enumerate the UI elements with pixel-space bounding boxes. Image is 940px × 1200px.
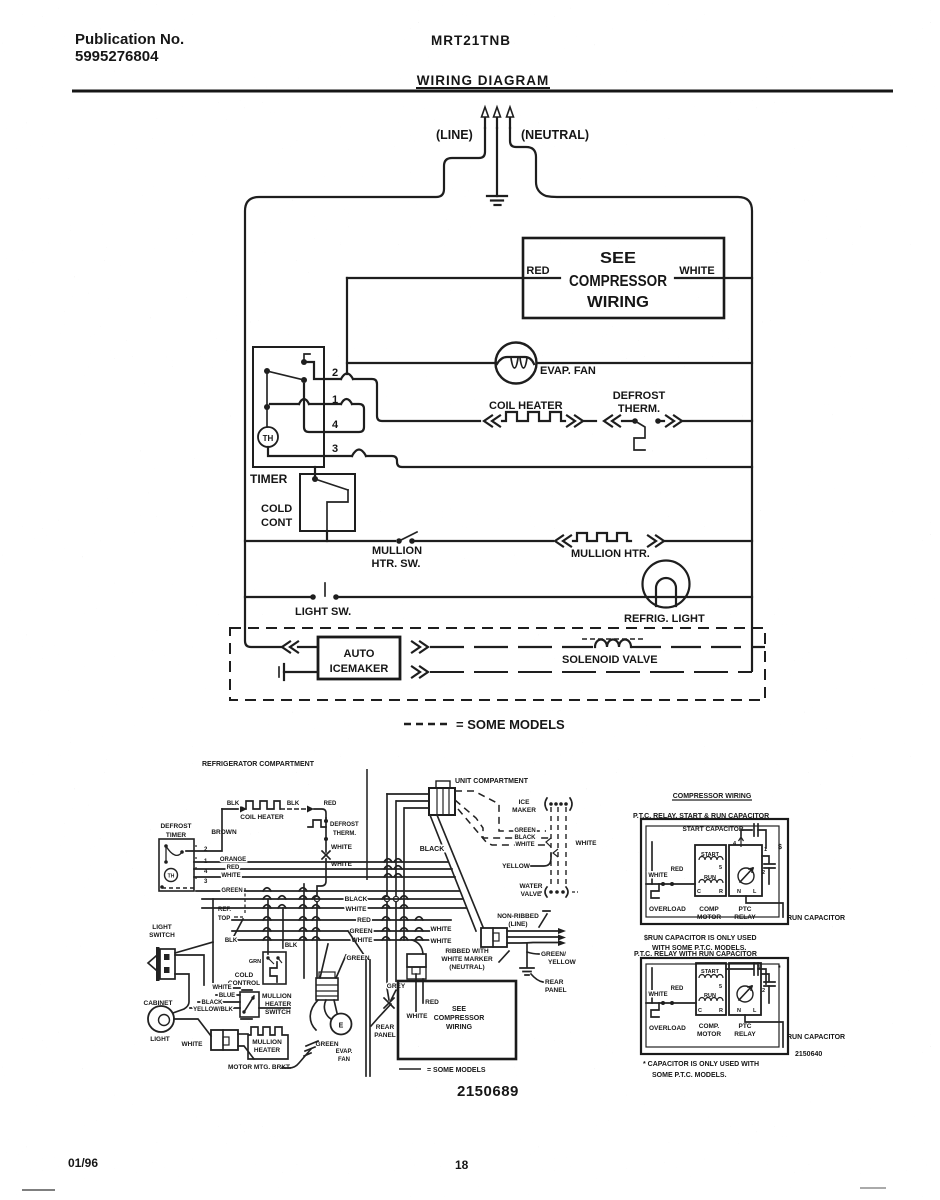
white wire down to terminal bbox=[317, 859, 326, 896]
cold control box bbox=[300, 474, 355, 531]
defrost therm contacts bbox=[622, 418, 664, 450]
svg-text:ORANGE: ORANGE bbox=[220, 857, 246, 863]
svg-text:TIMER: TIMER bbox=[166, 832, 187, 839]
mullion heater plug bbox=[211, 1030, 238, 1050]
bundle row red bbox=[232, 919, 451, 921]
svg-text:WHITE: WHITE bbox=[212, 985, 231, 991]
svg-text:RUN CAPACITOR: RUN CAPACITOR bbox=[787, 915, 845, 922]
svg-text:WIRING: WIRING bbox=[446, 1024, 473, 1031]
ptc relay box2 bbox=[729, 963, 761, 1015]
svg-text:PTC: PTC bbox=[739, 906, 752, 913]
rear panel splice converging wires bbox=[371, 988, 396, 1026]
rear panel double verticals bbox=[366, 960, 370, 1076]
svg-text:N: N bbox=[737, 1008, 741, 1014]
comp motor box2 bbox=[696, 963, 726, 1015]
fan wires curved bbox=[310, 1000, 337, 1030]
svg-text:WIRING DIAGRAM: WIRING DIAGRAM bbox=[417, 73, 550, 88]
bulkhead connector wires left bbox=[387, 794, 429, 808]
defrost timer blade bbox=[166, 846, 182, 862]
label LIGHT SWITCH bbox=[149, 924, 175, 939]
label MULLION HTR. SW. bbox=[372, 545, 423, 570]
label COMP MOTOR box1 bbox=[697, 906, 721, 921]
mullion heater arrow right bbox=[648, 536, 664, 547]
label RIBBED WITH WHITE MARKER (NEUTRAL) bbox=[441, 948, 493, 971]
svg-text:4: 4 bbox=[332, 419, 339, 431]
svg-text:WHITE: WHITE bbox=[648, 873, 667, 879]
wire solenoid to dashed box edge bbox=[631, 646, 765, 648]
svg-text:TIMER: TIMER bbox=[250, 472, 288, 486]
bundle hops white2 row bbox=[263, 937, 423, 940]
overload step box1 bbox=[651, 884, 659, 898]
wire icemaker bottom row bbox=[430, 670, 752, 672]
svg-text:WHITE: WHITE bbox=[331, 861, 353, 868]
cold control to mullion row bbox=[326, 531, 328, 541]
some models dashed box bbox=[230, 628, 765, 700]
ground wire stem bbox=[496, 128, 498, 196]
svg-text:REF.: REF. bbox=[218, 907, 231, 913]
svg-text:MULLION: MULLION bbox=[262, 993, 292, 1000]
terminal circle white wire bbox=[314, 896, 319, 901]
svg-text:WHITE: WHITE bbox=[576, 840, 598, 847]
svg-text:5995276804: 5995276804 bbox=[75, 48, 159, 65]
plug prong ground bbox=[494, 107, 501, 128]
publication number text bbox=[75, 31, 184, 65]
svg-text:BLACK: BLACK bbox=[515, 835, 537, 841]
cabinet light circle bbox=[148, 1006, 174, 1032]
svg-text:EVAP.: EVAP. bbox=[336, 1049, 353, 1055]
light switch bracket bbox=[148, 956, 156, 970]
svg-text:COMP.: COMP. bbox=[699, 1023, 720, 1030]
legend dashes bbox=[404, 723, 449, 726]
svg-text:SWITCH: SWITCH bbox=[149, 932, 175, 939]
bundle row black bbox=[202, 898, 462, 900]
inner left vertical box2 bbox=[651, 968, 653, 1003]
mullion heater switch box bbox=[240, 992, 259, 1017]
icemaker feed arrows bbox=[282, 642, 298, 653]
outer boundary right with cord bump bbox=[510, 128, 752, 670]
compressor wiring underline bbox=[672, 799, 752, 801]
run capacitor symbol1 bbox=[762, 856, 775, 884]
svg-text:Publication No.: Publication No. bbox=[75, 31, 184, 48]
label AUTO ICEMAKER bbox=[330, 648, 389, 675]
footer left mark bbox=[22, 1189, 55, 1191]
svg-text:*: * bbox=[778, 965, 781, 972]
feed dots box2 bbox=[661, 1001, 674, 1005]
bundle hops white1 row bbox=[263, 905, 408, 908]
cold control step element bbox=[327, 490, 348, 531]
wire red into see box bbox=[422, 979, 424, 1003]
svg-text:MRT21TNB: MRT21TNB bbox=[431, 33, 511, 48]
svg-text:WHITE: WHITE bbox=[182, 1041, 204, 1048]
label PTC RELAY box2 bbox=[734, 1023, 756, 1038]
solenoid valve actuator dashed line bbox=[582, 638, 646, 640]
mullion heater resistor bbox=[573, 533, 631, 541]
title underline bbox=[416, 87, 550, 89]
defrost therm arrows left bbox=[604, 416, 620, 427]
cord plug box bbox=[481, 928, 507, 947]
vertical blk bbox=[282, 908, 284, 948]
label REAR PANEL left bbox=[374, 1024, 396, 1039]
bundle hops red row bbox=[263, 917, 423, 920]
svg-text:LIGHT SW.: LIGHT SW. bbox=[295, 606, 351, 618]
icemaker dashed verticals bbox=[551, 807, 566, 888]
brown riser wire bbox=[186, 809, 222, 851]
coil heater arrows right bbox=[567, 416, 583, 427]
svg-text:WHITE: WHITE bbox=[431, 938, 453, 945]
lower coil heater right wire with arrow bbox=[280, 806, 326, 819]
evap fan winding loops bbox=[511, 358, 527, 368]
ptc box1 outer bbox=[641, 819, 788, 924]
note run capacitor only bbox=[644, 935, 757, 952]
svg-text:BROWN: BROWN bbox=[211, 829, 237, 836]
bundle hops black row bbox=[263, 896, 408, 899]
label COLD CONT bbox=[261, 503, 292, 529]
light switch box bbox=[156, 947, 175, 981]
svg-text:START CAPACITOR: START CAPACITOR bbox=[682, 826, 743, 833]
defrost therm arrow right bbox=[666, 416, 682, 427]
auto icemaker box bbox=[318, 637, 400, 679]
svg-text:COLD: COLD bbox=[261, 503, 292, 515]
svg-text:E: E bbox=[339, 1023, 344, 1030]
svg-text:COMPRESSOR: COMPRESSOR bbox=[434, 1015, 485, 1022]
wire to evap fan bbox=[347, 362, 496, 364]
hops on orange red white rows bbox=[384, 859, 402, 877]
svg-text:UNIT COMPARTMENT: UNIT COMPARTMENT bbox=[455, 778, 529, 785]
svg-text:ICEMAKER: ICEMAKER bbox=[330, 663, 389, 675]
svg-text:WIRING: WIRING bbox=[587, 294, 649, 311]
svg-text:GREEN: GREEN bbox=[221, 888, 242, 894]
svg-text:WHITE: WHITE bbox=[515, 842, 534, 848]
timer contact hook bbox=[304, 354, 310, 362]
row red wire bbox=[194, 868, 452, 870]
ref top dash bbox=[234, 916, 243, 918]
svg-text:3: 3 bbox=[332, 443, 338, 455]
vertical defrost white down bbox=[303, 884, 305, 978]
svg-text:(NEUTRAL): (NEUTRAL) bbox=[449, 964, 484, 971]
wire plug bottom to bracket bbox=[238, 1046, 254, 1059]
label REF. TOP bbox=[218, 907, 231, 922]
svg-text:REAR: REAR bbox=[376, 1024, 395, 1031]
wire row contact 1 bbox=[270, 384, 364, 432]
svg-text:REFRIG. LIGHT: REFRIG. LIGHT bbox=[624, 613, 705, 625]
lower defrost therm step bbox=[308, 820, 326, 827]
ptc box2 inner bbox=[646, 964, 779, 1047]
wire switch down to cabinet light bbox=[173, 974, 189, 1013]
label WATER VALVE bbox=[520, 883, 543, 898]
svg-text:* CAPACITOR IS ONLY USED WITH: * CAPACITOR IS ONLY USED WITH bbox=[643, 1061, 759, 1068]
svg-text:RELAY: RELAY bbox=[734, 1031, 756, 1038]
ref top dashed vertical bbox=[244, 888, 246, 913]
svg-text:BLK: BLK bbox=[227, 801, 240, 807]
svg-text:PTC: PTC bbox=[739, 1023, 752, 1030]
cold control feed from row 3 bbox=[314, 467, 316, 478]
svg-text:HTR. SW.: HTR. SW. bbox=[372, 558, 421, 570]
yellow wire hook bbox=[531, 854, 551, 866]
start winding coil bbox=[699, 857, 723, 861]
svg-text:MOTOR: MOTOR bbox=[697, 1031, 721, 1038]
note capacitor only box2 bbox=[643, 1061, 759, 1079]
start winding coil2 bbox=[699, 975, 723, 978]
vertical wire third feed bbox=[403, 808, 405, 940]
vertical to cold control bbox=[267, 899, 269, 954]
svg-text:HEATER: HEATER bbox=[254, 1047, 281, 1054]
icemaker wire jogs bbox=[546, 838, 558, 857]
run winding coil bbox=[699, 880, 723, 884]
row green wire dashed start bbox=[162, 887, 196, 889]
svg-text:COIL HEATER: COIL HEATER bbox=[240, 814, 284, 821]
wire row contact 3 bbox=[268, 447, 752, 467]
svg-text:COMP: COMP bbox=[699, 906, 719, 913]
terminal circle second feed bbox=[393, 896, 398, 901]
svg-text:PANEL: PANEL bbox=[374, 1032, 396, 1039]
grey connector box bbox=[407, 954, 426, 979]
fan ground tilted bbox=[282, 1041, 318, 1068]
svg-text:PANEL: PANEL bbox=[545, 987, 567, 994]
start capacitor loop bbox=[741, 824, 766, 848]
wire row contact 2 bbox=[304, 362, 480, 421]
ground symbol bbox=[487, 196, 507, 205]
wire into icemaker bbox=[298, 646, 318, 648]
green yellow hook bbox=[527, 952, 539, 954]
label COMP MOTOR box2 bbox=[697, 1023, 721, 1038]
svg-text:BLK: BLK bbox=[285, 943, 298, 949]
label DEFROST THERM lower bbox=[330, 822, 359, 837]
label GREEN/ YELLOW bbox=[541, 951, 577, 966]
lower defrost therm dots bbox=[324, 819, 328, 841]
feed wire left box2 bbox=[646, 1002, 696, 1004]
svg-text:RED: RED bbox=[671, 986, 684, 992]
timer switch blade bbox=[267, 371, 304, 380]
svg-text:RED: RED bbox=[357, 917, 371, 924]
svg-text:WHITE: WHITE bbox=[431, 926, 453, 933]
lower defrost therm vertical bbox=[325, 818, 327, 852]
svg-text:R: R bbox=[719, 889, 723, 895]
svg-text:RED: RED bbox=[671, 867, 684, 873]
wire heater switch out bbox=[259, 1007, 290, 1009]
comp motor box1 bbox=[695, 845, 726, 896]
green diagonal to rear panel bbox=[348, 931, 366, 958]
svg-text:THERM.: THERM. bbox=[618, 403, 660, 415]
coil heater resistor bbox=[502, 412, 565, 421]
svg-text:18: 18 bbox=[455, 1158, 469, 1172]
wire red dropper bbox=[346, 278, 348, 374]
svg-text:MOTOR: MOTOR bbox=[697, 914, 721, 921]
cord line 3 bbox=[507, 940, 566, 946]
label EVAP FAN lower bbox=[336, 1049, 353, 1063]
vertical from terminal to fan connector bbox=[316, 902, 318, 978]
svg-text:THERM.: THERM. bbox=[333, 831, 356, 837]
svg-text:COMPRESSOR WIRING: COMPRESSOR WIRING bbox=[673, 793, 752, 800]
svg-text:MULLION: MULLION bbox=[372, 545, 422, 557]
row white wire bbox=[194, 876, 455, 878]
run capacitor symbol2 bbox=[762, 974, 775, 1003]
wire white into see box bbox=[415, 974, 417, 1012]
svg-text:WHITE: WHITE bbox=[679, 265, 714, 277]
start capacitor loop2 bbox=[726, 963, 766, 984]
contact tick marks bbox=[195, 845, 197, 881]
svg-text:2: 2 bbox=[762, 870, 765, 876]
svg-text:RELAY: RELAY bbox=[734, 914, 756, 921]
svg-text:LIGHT: LIGHT bbox=[152, 924, 172, 931]
green yellow ground drop bbox=[526, 943, 528, 967]
timer contact labels 2 1 4 3 bbox=[204, 847, 208, 885]
compartment divider line bbox=[366, 769, 368, 880]
svg-text:SEE: SEE bbox=[452, 1006, 466, 1013]
header rule bbox=[72, 90, 893, 93]
vertical white to switch bbox=[212, 899, 214, 985]
wire TH connection bbox=[266, 407, 268, 427]
timer box bbox=[253, 347, 324, 467]
refrig light circle bbox=[643, 561, 690, 608]
TH motor circle bbox=[258, 427, 278, 447]
bundle row white2 bbox=[232, 939, 437, 941]
cabinet light filament bbox=[159, 1015, 170, 1026]
svg-text:C: C bbox=[698, 1008, 702, 1014]
refrig light filament bbox=[656, 578, 676, 606]
mullion heater sw row bbox=[245, 540, 395, 542]
feed wire left box1 bbox=[646, 883, 695, 885]
stack wires into heater switch bbox=[190, 985, 240, 1008]
timer left vertical wire bbox=[266, 371, 268, 407]
rear panel pointer lower bbox=[531, 974, 543, 982]
feed dots box1 bbox=[661, 882, 674, 886]
heater switch ticks bbox=[241, 990, 252, 1019]
lower coil heater resistor bbox=[246, 801, 280, 809]
svg-text:WHITE: WHITE bbox=[407, 1013, 429, 1020]
ptc bottom wire box1 bbox=[746, 896, 783, 917]
overload step box2 bbox=[651, 1003, 659, 1017]
wire red into compressor box bbox=[347, 277, 560, 279]
svg-text:C: C bbox=[697, 889, 701, 895]
black pair diagonal right bbox=[437, 815, 483, 927]
see box text bbox=[434, 1006, 485, 1031]
splice symbol bbox=[322, 851, 330, 859]
icemaker out arrows top bbox=[412, 642, 428, 653]
svg-text:2: 2 bbox=[762, 988, 765, 994]
cold control contact dot bbox=[312, 476, 318, 482]
svg-text:RED: RED bbox=[425, 999, 439, 1006]
svg-text:EVAP. FAN: EVAP. FAN bbox=[540, 365, 596, 377]
defrost timer bottom dot bbox=[160, 885, 164, 889]
lower legend line bbox=[399, 1068, 421, 1070]
label DEFROST TIMER bbox=[160, 823, 191, 839]
svg-text:(LINE): (LINE) bbox=[436, 128, 473, 142]
svg-text:CONT: CONT bbox=[261, 517, 292, 529]
svg-text:GREEN/: GREEN/ bbox=[541, 951, 566, 958]
bulkhead connector block bbox=[429, 781, 455, 815]
ptc box2 outer bbox=[641, 958, 788, 1054]
svg-text:TH: TH bbox=[168, 874, 175, 880]
svg-text:LIGHT: LIGHT bbox=[150, 1036, 170, 1043]
svg-text:WHITE MARKER: WHITE MARKER bbox=[441, 956, 493, 963]
svg-text:BLACK: BLACK bbox=[420, 846, 445, 853]
svg-text:HEATER: HEATER bbox=[265, 1001, 292, 1008]
black pair diagonal left bbox=[430, 815, 476, 931]
label MULLION HEATER SWITCH bbox=[262, 993, 292, 1016]
light switch actuator tick bbox=[324, 583, 326, 596]
coil heater arrows left bbox=[484, 416, 500, 427]
ptc bottom wire box2 bbox=[745, 1015, 783, 1047]
water valve plug bbox=[539, 887, 578, 897]
wire icemaker top row bbox=[430, 646, 593, 648]
ref top switch blade bbox=[232, 919, 243, 940]
light switch row bbox=[245, 596, 310, 598]
outer boundary left with cord bump bbox=[245, 128, 485, 647]
svg-text:WATER: WATER bbox=[520, 883, 543, 890]
svg-text:GREEN: GREEN bbox=[315, 1041, 338, 1048]
mullion heater switch blade bbox=[399, 532, 417, 541]
svg-text:BLK: BLK bbox=[225, 938, 238, 944]
wire into connector curve bbox=[412, 940, 423, 954]
svg-text:DEFROST: DEFROST bbox=[330, 822, 359, 828]
plug prong neutral bbox=[507, 107, 514, 128]
mullion heater arrows left bbox=[555, 536, 571, 547]
defrost timer box bbox=[159, 839, 194, 891]
svg-text:COLD: COLD bbox=[235, 972, 254, 979]
pin 4 arrow bbox=[739, 837, 744, 847]
svg-text:2150689: 2150689 bbox=[457, 1083, 519, 1100]
lower TH circle bbox=[165, 869, 178, 882]
scan speckle noise bbox=[0, 0, 1, 1]
svg-text:= SOME MODELS: = SOME MODELS bbox=[456, 717, 565, 732]
row orange wire bbox=[194, 861, 448, 863]
svg-text:START: START bbox=[701, 969, 720, 975]
svg-text:N: N bbox=[737, 889, 741, 895]
svg-text:REFRIGERATOR COMPARTMENT: REFRIGERATOR COMPARTMENT bbox=[202, 761, 315, 768]
svg-text:YELLOW: YELLOW bbox=[548, 959, 577, 966]
cold control step lower bbox=[270, 962, 277, 982]
bundle row green2 bbox=[232, 930, 437, 932]
wire light switch to refrig light bbox=[339, 596, 752, 598]
ground bars green yellow bbox=[520, 968, 534, 975]
svg-text:$RUN CAPACITOR IS ONLY USED: $RUN CAPACITOR IS ONLY USED bbox=[644, 935, 757, 942]
cord line 2 bbox=[507, 935, 566, 941]
wire white out of compressor box bbox=[675, 277, 752, 279]
bundle hops green2 row bbox=[263, 928, 423, 931]
icemaker ground symbol bbox=[279, 664, 318, 680]
label PTC RELAY box1 bbox=[734, 906, 756, 921]
vertical wire grey feed bbox=[386, 794, 388, 988]
svg-text:5: 5 bbox=[719, 865, 722, 871]
non-ribbed pointer bbox=[539, 911, 550, 927]
plug prong line bbox=[482, 107, 489, 128]
cord line 1 bbox=[507, 928, 566, 934]
label ICE MAKER bbox=[512, 799, 536, 814]
wire cabinet light to plug bbox=[174, 1019, 211, 1036]
ice maker plug brackets and pins bbox=[545, 798, 572, 810]
svg-text:BLACK: BLACK bbox=[202, 1000, 224, 1006]
svg-text:GREEN: GREEN bbox=[349, 928, 372, 935]
svg-text:NON-RIBBED: NON-RIBBED bbox=[497, 913, 539, 920]
cold control blade bbox=[315, 479, 348, 490]
defrost timer contact dots bbox=[164, 844, 184, 864]
compressor wiring box bbox=[523, 238, 724, 318]
wire switch to mullion heater bbox=[412, 540, 553, 542]
svg-text:(LINE): (LINE) bbox=[508, 921, 527, 928]
svg-text:SOME P.T.C. MODELS.: SOME P.T.C. MODELS. bbox=[652, 1072, 727, 1079]
svg-text:OVERLOAD: OVERLOAD bbox=[649, 1025, 686, 1032]
svg-text:GREY: GREY bbox=[387, 983, 406, 990]
hops on row 1 bbox=[299, 399, 352, 404]
evap fan motor circle lower bbox=[331, 1014, 352, 1035]
wire switch diagonal to bundle bbox=[175, 942, 213, 953]
label MULLION HEATER box bbox=[252, 1039, 282, 1054]
svg-text:DEFROST: DEFROST bbox=[160, 823, 191, 830]
svg-text:BLK: BLK bbox=[287, 801, 300, 807]
svg-text:REAR: REAR bbox=[545, 979, 564, 986]
label COLD CONTROL lower bbox=[228, 972, 260, 987]
evap fan winding bridge bbox=[497, 357, 534, 364]
